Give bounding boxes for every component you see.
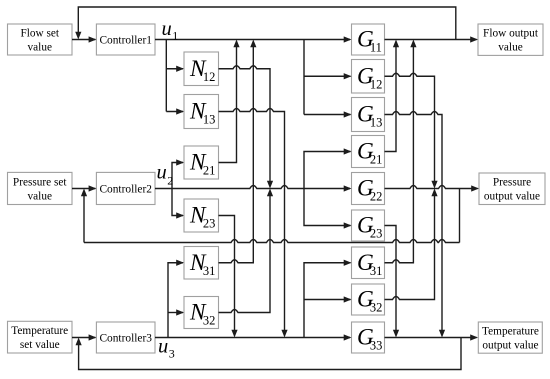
block: Flow set value [8, 24, 73, 55]
svg-text:3: 3 [169, 346, 175, 360]
wire: u2 line Controller2 to G22 [155, 186, 350, 189]
wire: into N13 [166, 111, 183, 113]
arrow: into G32 [344, 296, 352, 302]
wire: u1 line Controller1 to G11 [155, 39, 350, 41]
wire: N21 output to u1 line [219, 47, 237, 163]
arrow: into pressure output box [471, 185, 479, 191]
arrow: into G13 [344, 111, 352, 117]
arrow: N21 output joins u1 line [233, 40, 239, 48]
svg-text:12: 12 [203, 70, 216, 84]
block: Temperature output value [478, 322, 542, 353]
svg-text:32: 32 [370, 301, 383, 315]
wire: G12 output down to pressure line [385, 73, 435, 181]
wire: u3 line Controller3 to G33 [155, 337, 350, 339]
svg-text:13: 13 [203, 113, 216, 127]
block: plant G32 [352, 284, 385, 315]
arrow: into N12 [176, 66, 184, 72]
arrow: into N21 [176, 159, 184, 165]
wire: u2 branch to N21 and N23 [172, 163, 183, 216]
arrow: N13 output joins u3 line [281, 330, 287, 338]
wire: G31 output up to flow line [385, 47, 414, 263]
arrow: into N31 [176, 260, 184, 266]
svg-text:23: 23 [370, 227, 383, 241]
wire: G32 output up to pressure line [385, 196, 435, 300]
arrow: into Controller1 [89, 36, 97, 42]
block: Controller2 [96, 172, 155, 204]
arrow: into G33 [344, 334, 352, 340]
block: decoupler N12 [184, 52, 219, 86]
arrow: into N13 [176, 108, 184, 114]
block: plant G12 [352, 60, 385, 94]
svg-text:Controller1: Controller1 [99, 35, 152, 47]
block: plant G33 [352, 322, 385, 353]
wire: temperature set value to Controller3 [72, 337, 95, 339]
arrow: into G11 [344, 36, 352, 42]
block: plant G21 [352, 136, 385, 168]
wire: G23 output down to temperature line [385, 226, 397, 331]
arrow: into Controller2 [89, 185, 97, 191]
arrow: temperature feedback joins summing point [76, 338, 82, 346]
wire: u3 branch up to N31 N32 [168, 263, 183, 338]
svg-text:u: u [157, 162, 167, 184]
svg-text:u: u [158, 336, 168, 358]
svg-text:32: 32 [203, 314, 216, 328]
block: Temperature set value [8, 321, 73, 353]
arrow: into flow output box [470, 36, 478, 42]
block: Controller3 [96, 322, 155, 353]
block: plant G31 [352, 247, 385, 279]
block: decoupler N13 [184, 95, 219, 129]
wire: pressure feedback up to summing point [83, 196, 85, 243]
wire: G11 output to flow output box [385, 39, 477, 41]
svg-text:output value: output value [484, 191, 540, 203]
arrow: into G12 [344, 73, 352, 79]
svg-text:value: value [28, 191, 52, 203]
wire: N12 output to u2 line [219, 66, 271, 182]
wire: flow set value to Controller1 [72, 39, 95, 41]
block: plant G13 [352, 98, 385, 132]
wire: G13 output down to temperature line [385, 112, 443, 331]
arrow: into G23 [344, 222, 352, 228]
block: plant G11 [352, 24, 385, 55]
arrow: into N32 [176, 309, 184, 315]
arrow: N31 output joins u1 line [250, 40, 256, 48]
block: Flow output value [478, 24, 543, 55]
svg-text:13: 13 [370, 116, 383, 130]
svg-text:21: 21 [370, 153, 383, 167]
block: decoupler N23 [184, 199, 219, 232]
wire: v1 branch to G12 G13 [304, 40, 351, 115]
wire: pressure set value to Controller2 [72, 188, 95, 190]
arrow: G23 output joins temperature line [393, 330, 399, 338]
block: decoupler N21 [184, 146, 219, 179]
wire: pressure feedback vertical right [459, 189, 461, 243]
svg-text:Controller3: Controller3 [99, 333, 152, 345]
svg-text:set value: set value [20, 339, 60, 351]
svg-text:Flow output: Flow output [483, 28, 539, 40]
svg-text:Pressure: Pressure [493, 177, 531, 189]
arrow: N12 output joins u2 line [267, 181, 273, 189]
svg-text:Pressure set: Pressure set [13, 177, 68, 189]
wire: u1 branch down to N12 N13 [165, 40, 167, 112]
block: plant G22 [352, 173, 385, 205]
svg-text:22: 22 [370, 190, 383, 204]
svg-text:31: 31 [370, 264, 383, 278]
block: decoupler N31 [184, 247, 219, 280]
wire: pressure feedback horizontal [84, 240, 460, 243]
block: Pressure output value [479, 173, 545, 205]
svg-text:u: u [162, 18, 172, 40]
block: Pressure set value [8, 172, 73, 204]
arrow: G21 output joins flow line [393, 40, 399, 48]
arrow: N32 output joins u2 line [267, 189, 273, 197]
arrow: into G31 [344, 260, 352, 266]
wire: flow feedback (top) [78, 7, 456, 40]
wire: G33 output to temperature output box [385, 337, 477, 339]
svg-text:21: 21 [203, 164, 216, 178]
svg-text:Temperature: Temperature [11, 325, 68, 337]
arrow: into N23 [176, 212, 184, 218]
wire: N13 output to u3 line [219, 109, 285, 331]
arrow: N23 output joins u3 line [231, 330, 237, 338]
svg-text:23: 23 [203, 217, 216, 231]
wire: v3 branch to G31 G32 [304, 263, 351, 338]
svg-text:value: value [498, 42, 522, 54]
svg-text:value: value [28, 42, 52, 54]
block: plant G23 [352, 210, 385, 241]
svg-text:31: 31 [203, 264, 216, 278]
svg-text:11: 11 [370, 41, 382, 55]
svg-text:1: 1 [172, 29, 178, 43]
block: decoupler N32 [184, 297, 219, 329]
wire: v2 branch to G21 G23 [304, 152, 351, 226]
arrow: into temperature output box [470, 334, 478, 340]
wire: G22 output to pressure output box [385, 186, 478, 189]
svg-text:2: 2 [167, 173, 173, 187]
arrow: G13 output joins temperature line [439, 330, 445, 338]
arrow: G32 output joins pressure line [431, 189, 437, 197]
arrow: G31 output joins flow line [410, 40, 416, 48]
arrow: into G21 [344, 148, 352, 154]
wire: N31 output to u1 line [219, 47, 254, 263]
svg-text:12: 12 [370, 78, 383, 92]
svg-text:Controller2: Controller2 [99, 184, 152, 196]
arrow: flow feedback joins summing point [75, 32, 81, 40]
arrow: into Controller3 [89, 334, 97, 340]
wire: temperature feedback [79, 338, 461, 370]
svg-text:33: 33 [370, 339, 383, 353]
svg-text:Temperature: Temperature [482, 326, 539, 338]
wire: N32 output to u2 line [219, 196, 271, 313]
arrow: into G22 [344, 185, 352, 191]
svg-text:Flow set: Flow set [20, 28, 59, 40]
wire: N23 output to u3 line [219, 216, 235, 331]
wire: G21 output up to flow line [385, 47, 397, 152]
wire: into N32 [168, 312, 183, 314]
arrow: G12 output joins pressure line [431, 181, 437, 189]
wire: into N12 [166, 68, 183, 70]
block: Controller1 [96, 24, 155, 55]
arrow: pressure feedback joins summing point [81, 189, 87, 197]
svg-text:output value: output value [482, 340, 538, 352]
